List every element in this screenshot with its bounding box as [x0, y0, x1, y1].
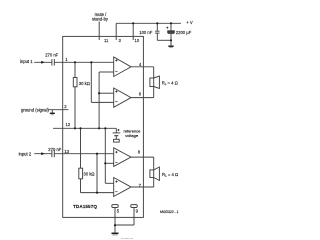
- svg-text:MGD323 - 1: MGD323 - 1: [160, 210, 179, 214]
- svg-text:30 kΩ: 30 kΩ: [84, 172, 95, 177]
- svg-text:..........: ..........: [121, 236, 133, 239]
- svg-text:2: 2: [64, 104, 67, 109]
- svg-text:ground (signal): ground (signal): [21, 107, 50, 112]
- svg-text:input 1: input 1: [20, 59, 33, 64]
- svg-text:2200 µF: 2200 µF: [176, 30, 192, 35]
- svg-text:1: 1: [65, 57, 68, 62]
- svg-text:9: 9: [136, 209, 139, 214]
- svg-text:12: 12: [66, 122, 71, 127]
- svg-text:11: 11: [104, 38, 109, 43]
- svg-text:RL = 4 Ω: RL = 4 Ω: [162, 80, 178, 86]
- svg-text:3: 3: [119, 38, 122, 43]
- svg-text:RL = 4 Ω: RL = 4 Ω: [162, 172, 178, 178]
- svg-text:TDA1557Q: TDA1557Q: [73, 204, 97, 209]
- svg-text:stand-by: stand-by: [92, 17, 109, 22]
- svg-text:input 2: input 2: [19, 151, 32, 156]
- svg-text:270 nF: 270 nF: [45, 52, 58, 57]
- svg-text:voltage: voltage: [125, 133, 139, 138]
- svg-text:8: 8: [138, 150, 141, 155]
- svg-text:270 nF: 270 nF: [48, 147, 61, 152]
- svg-text:10: 10: [135, 38, 140, 43]
- svg-text:30 kΩ: 30 kΩ: [79, 81, 90, 86]
- svg-text:+ V: + V: [186, 20, 193, 25]
- svg-text:4: 4: [139, 62, 142, 67]
- svg-text:100 nF: 100 nF: [139, 30, 152, 35]
- svg-text:13: 13: [64, 149, 69, 154]
- svg-text:6: 6: [139, 92, 142, 97]
- svg-text:5: 5: [117, 209, 120, 214]
